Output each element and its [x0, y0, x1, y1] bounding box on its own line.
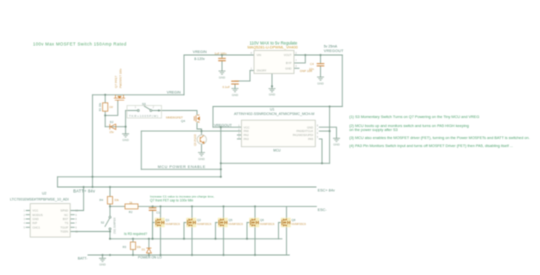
svg-text:(4) PA3 Pin Monitors Switch in: (4) PA3 Pin Monitors Switch input and tu… [349, 144, 513, 148]
wire R4 node to R2 [110, 205, 125, 207]
wire regulator EN pin [250, 70, 254, 72]
junction U2 TG [109, 230, 111, 232]
wire Q3 emitter to ground [201, 144, 203, 152]
junction enable cross [220, 168, 222, 170]
wire MCU POWER ENABLE run [141, 168, 221, 170]
svg-text:Q6: Q6 [260, 218, 264, 222]
svg-text:Is R3 required?: Is R3 required? [124, 232, 147, 236]
junction Q1 drain [159, 205, 161, 207]
junction Q3 drain [222, 205, 224, 207]
svg-text:U2: U2 [42, 192, 46, 196]
wire BATT+ ESC+ rail [58, 186, 317, 188]
wire C1 top lead [152, 206, 154, 207]
transistor Q8 power mosfet [281, 218, 291, 227]
U2 pin names [32, 209, 68, 234]
wire regulator VIN stub [250, 54, 254, 56]
wire VREGIN vertical riser [183, 55, 185, 95]
svg-text:R3: R3 [123, 245, 127, 249]
transistor Q7 p-mosfet [114, 95, 125, 101]
capacitor C2 [218, 58, 226, 60]
wire BYP pin riser [294, 55, 305, 63]
switch S2 [105, 216, 111, 230]
wire MOSFET Q3 drain [223, 206, 225, 218]
junction R4 rail [109, 186, 111, 188]
junction C1 gate rail [152, 238, 154, 240]
svg-text:GND: GND [285, 66, 291, 70]
wire MOSFET Q3 gate drop [216, 223, 219, 239]
junction Q2 source [191, 254, 193, 256]
junction PA0 riser [329, 130, 331, 132]
svg-text:POWER ON LO: POWER ON LO [138, 256, 162, 260]
svg-text:DNP 10R: DNP 10R [300, 69, 312, 73]
junction D1 gate rail [148, 238, 150, 240]
wire U2 TG output [74, 231, 110, 233]
junction VREGOUT riser [220, 126, 222, 128]
ground U1 [333, 138, 340, 141]
wire MOSFET Q1 source [160, 227, 162, 255]
svg-text:MCU: MCU [273, 148, 281, 152]
wire VREGOUT to MCU VCC [213, 126, 241, 128]
svg-text:VIN: VIN [257, 53, 262, 57]
svg-text:S2: S2 [101, 220, 105, 224]
wire VOUT rail [294, 54, 342, 56]
svg-text:D2: D2 [110, 120, 114, 124]
svg-text:C4: C4 [310, 62, 314, 66]
wire BATT+ left drop [57, 177, 59, 187]
wire MCU top rail [213, 106, 342, 108]
junction C2 [221, 54, 223, 56]
svg-text:VREGIN: VREGIN [193, 50, 207, 54]
svg-text:CHC1: CHC1 [32, 225, 40, 229]
wire BATT- ground drop [102, 255, 104, 258]
wire D1 bottom lead [148, 253, 150, 255]
svg-text:1uF 100v: 1uF 100v [215, 51, 228, 55]
IC U3 regulator body [254, 51, 294, 74]
junction C1 top [152, 205, 154, 207]
junction MCU top rail [329, 105, 331, 107]
wire EN to C3 [235, 80, 250, 82]
resistor R1 [103, 103, 108, 111]
svg-text:8-120v: 8-120v [194, 57, 205, 61]
svg-text:NVMFS5C6: NVMFS5C6 [260, 222, 275, 226]
wire MOSFET Q5 source [286, 227, 288, 255]
junction BATT- gnd [101, 254, 103, 256]
svg-text:PA5: PA5 [308, 137, 314, 141]
junction R3 bottom [132, 254, 134, 256]
svg-text:Q7 front FET cap to 100v Min: Q7 front FET cap to 100v Min [150, 198, 193, 202]
junction R4 R2 node [109, 205, 111, 207]
wire VREGOUT drop [341, 55, 343, 107]
wire R1 top lead [104, 95, 106, 103]
wire power-enable vertical [140, 131, 142, 169]
junction Q7 feed [91, 176, 93, 178]
resistor R2 [125, 204, 138, 209]
U3 pin numbers [251, 52, 298, 71]
junction enable bottom [220, 176, 222, 178]
wire BATT+ feed to Q7 source [92, 95, 94, 187]
wire MOSFET Q4 source [254, 227, 256, 255]
junction Q3 source [222, 254, 224, 256]
wire VREGIN lower run [93, 94, 185, 96]
ground C2 [219, 71, 226, 74]
ground C3 [232, 89, 239, 92]
transistor Q4 latch fet [194, 115, 199, 123]
wire MCU VCC riser [212, 107, 214, 128]
junction gate rail left [109, 238, 111, 240]
wire MCU bottom run [221, 162, 330, 164]
svg-text:GND: GND [219, 75, 225, 79]
wire VREGIN top to VIN [184, 54, 254, 56]
transistor Q3 npn [197, 135, 206, 144]
svg-text:(3) MCU also enables the MOSFE: (3) MCU also enables the MOSFET driver (… [349, 136, 529, 140]
capacitor C3 [231, 81, 239, 84]
wire EN drop [249, 71, 251, 82]
svg-text:R4: R4 [100, 198, 104, 202]
diode D2 zener [110, 124, 116, 130]
junction MCU bottom left [220, 162, 222, 164]
svg-text:30k: 30k [114, 198, 119, 202]
resistor R3 [130, 242, 135, 250]
wire R4 top lead [109, 187, 111, 197]
wire MCU PA6 stub [237, 134, 241, 136]
U1 pin numbers [238, 124, 319, 139]
ground Q3 [198, 153, 205, 156]
svg-text:ATTINY402-SSNRDCNCN_ATMICPSMC_: ATTINY402-SSNRDCNCN_ATMICPSMC_MCH-M [234, 112, 314, 116]
wire C2 top lead [221, 55, 223, 58]
U1 pin names [244, 125, 314, 141]
wire MOSFET Q1 drain [160, 206, 162, 218]
IC U2 gate driver body [30, 204, 70, 238]
wire Q4 source to Q3 collector [197, 123, 202, 135]
wire BATT- rail [88, 254, 289, 256]
svg-text:GND: GND [122, 138, 128, 142]
wire U2 left stubs [26, 211, 30, 228]
junction Q7 feed rail [91, 186, 93, 188]
svg-text:NVMFS5C6: NVMFS5C6 [292, 222, 307, 226]
wire S2 bottom to gate rail [109, 230, 111, 239]
wire R3 top lead [132, 239, 134, 242]
svg-text:LTC7001EMSE#TRPBFMSE_10_ADI: LTC7001EMSE#TRPBFMSE_10_ADI [10, 198, 69, 202]
junction U2 VCC rail [83, 186, 85, 188]
svg-text:0.1uF: 0.1uF [223, 85, 231, 89]
junction S2 bottom rail [109, 254, 111, 256]
resistor R4 [107, 197, 112, 205]
junction Q1 gate [151, 238, 153, 240]
svg-text:GND: GND [99, 263, 105, 267]
wire MCU PA0 to riser [319, 130, 329, 132]
svg-text:VREGOUT: VREGOUT [324, 49, 344, 53]
ground S3 [122, 134, 129, 137]
wire MOSFET Q1 gate drop [153, 223, 156, 239]
ground U3 [271, 85, 273, 87]
svg-text:Q1: Q1 [166, 218, 170, 222]
junction PA5 drop [321, 162, 323, 164]
wire MOSFET Q3 source [223, 227, 225, 255]
svg-text:ESC+ 84v: ESC+ 84v [318, 188, 335, 192]
capacitor C1 [149, 208, 157, 210]
svg-text:C1: C1 [156, 211, 160, 215]
U3 pin names [257, 53, 292, 72]
junction BYP [304, 54, 306, 56]
svg-text:U1: U1 [270, 108, 274, 112]
svg-text:R2: R2 [129, 210, 133, 214]
transistor Q5 power mosfet [218, 218, 228, 227]
svg-text:VOUT: VOUT [284, 53, 292, 57]
junction S3 right [158, 109, 160, 111]
wire U2 VCC to BATT+ rail [74, 187, 83, 211]
svg-text:15v: 15v [109, 130, 114, 134]
wire MOSFET Q2 drain [191, 206, 193, 218]
junction Q4 source [254, 254, 256, 256]
svg-text:NVMFS5C6: NVMFS5C6 [197, 222, 212, 226]
wire MOSFET Q5 drain [286, 206, 288, 218]
S3 pin numbers [135, 106, 155, 109]
wire D2 to switch vertical [105, 126, 125, 128]
junction Q3 base wire [200, 130, 202, 132]
diode D1 zener [146, 248, 151, 253]
svg-text:Q2: Q2 [197, 218, 201, 222]
svg-text:Q4: Q4 [181, 119, 185, 123]
switch S3 [127, 106, 162, 119]
IC U1 MCU body [241, 120, 315, 147]
svg-text:MCU POWER ENABLE: MCU POWER ENABLE [158, 165, 206, 169]
wire BATT+ upper run [58, 176, 221, 178]
wire R3 bottom lead [132, 250, 134, 256]
wire S3 left contact to ground drop [126, 111, 138, 134]
wire MCU GND pin [319, 127, 336, 138]
wire C4 bottom lead [320, 66, 322, 77]
transistor Q6 power mosfet [249, 218, 259, 227]
svg-text:R1 10k: R1 10k [98, 102, 102, 111]
junction Q2 gate [183, 238, 185, 240]
svg-text:BATT-: BATT- [78, 257, 88, 261]
svg-text:NVMFS5C6: NVMFS5C6 [166, 222, 181, 226]
wire enable riser X1 [220, 127, 222, 177]
svg-text:on the power supply after S3: on the power supply after S3 [349, 128, 397, 132]
wire Q7 gate drop [105, 101, 118, 115]
svg-text:100v Max MOSFET Switch 150Amp: 100v Max MOSFET Switch 150Amp Rated [33, 42, 127, 47]
transistor Q1 power mosfet [155, 218, 165, 227]
wire MCU right riser X2 [329, 107, 331, 164]
svg-text:Q7 PFET: Q7 PFET [114, 75, 118, 88]
ground C4 [317, 77, 324, 80]
svg-text:VREGOUT: VREGOUT [214, 124, 233, 128]
junction R1 top [104, 94, 106, 96]
svg-text:MAQ5281-U-DPWML_VH400: MAQ5281-U-DPWML_VH400 [248, 46, 298, 50]
junction Q4 gate [246, 238, 248, 240]
svg-text:GND: GND [232, 93, 238, 97]
wire MOSFET Q5 gate drop [279, 223, 282, 239]
svg-text:GND: GND [198, 157, 204, 161]
capacitor C4 [317, 64, 325, 66]
svg-text:PMOSFET 100v: PMOSFET 100v [119, 68, 123, 88]
wire MOSFET Q2 source [191, 227, 193, 255]
wire C1 bottom lead to gate rail [152, 211, 154, 239]
junction D1 bottom [148, 254, 150, 256]
reference Q7 [114, 68, 122, 88]
svg-text:GND: GND [269, 93, 275, 97]
wire gate rail [110, 238, 282, 240]
svg-text:BYP: BYP [286, 61, 292, 65]
svg-text:S3: S3 [142, 102, 146, 106]
wire U2 right stubs [70, 211, 74, 232]
svg-text:ONOFF: ONOFF [257, 69, 267, 73]
ground BATT- [99, 258, 106, 261]
wire R1 bottom lead to gate node [104, 111, 106, 127]
svg-text:ESC-: ESC- [318, 208, 328, 212]
wire R4 to S2 [109, 204, 111, 216]
svg-text:BATT+ 84v: BATT+ 84v [73, 188, 96, 193]
svg-text:NVMFS5C6: NVMFS5C6 [229, 222, 244, 226]
svg-text:TKR+1005P(W): TKR+1005P(W) [129, 114, 159, 118]
svg-text:VREGIN: VREGIN [167, 90, 181, 94]
wire MOSFET Q4 drain [254, 206, 256, 218]
wire MOSFET Q4 gate drop [247, 223, 250, 239]
U2 pin numbers [24, 210, 79, 234]
wire D1 top lead [148, 239, 150, 248]
svg-text:D1: D1 [142, 247, 146, 251]
svg-text:PA3: PA3 [244, 137, 250, 141]
svg-text:TGDN: TGDN [60, 230, 68, 234]
junction Q4 drain [254, 205, 256, 207]
wire MCU PA2 stub [237, 138, 241, 140]
svg-text:Q8: Q8 [292, 218, 296, 222]
svg-text:(1) S3 Momentary Switch Turns: (1) S3 Momentary Switch Turns on Q7 Powe… [349, 115, 479, 119]
wire MCU PA5 drop [319, 139, 322, 163]
svg-text:GND: GND [333, 143, 339, 147]
junction Q2 drain [191, 205, 193, 207]
wire regulator GND pin drop [271, 74, 273, 89]
wire S3 right to Q4 drain [152, 111, 197, 115]
junction gate node [104, 114, 106, 116]
junction C4 [319, 54, 321, 56]
wire MCU PA1 to power-enable riser [141, 130, 241, 132]
svg-text:Q3 2N222: Q3 2N222 [193, 134, 197, 146]
svg-text:Q5: Q5 [229, 218, 233, 222]
svg-text:(S2) JUMPER: (S2) JUMPER [112, 217, 116, 233]
wire C2 bottom lead [221, 61, 223, 71]
junction R3 gate rail [132, 238, 134, 240]
wire MOSFET Q2 gate drop [184, 223, 187, 239]
wire drain rail ESC- [138, 205, 316, 207]
wire C3 bottom lead [234, 84, 236, 88]
transistor Q2 power mosfet [186, 218, 196, 227]
junction D2 switch node [125, 126, 127, 128]
svg-text:GND: GND [317, 81, 323, 85]
wire C4 top lead [320, 55, 322, 63]
wire DNP stub [294, 67, 299, 69]
junction Q1 source [159, 254, 161, 256]
junction Q3 gate [214, 238, 216, 240]
